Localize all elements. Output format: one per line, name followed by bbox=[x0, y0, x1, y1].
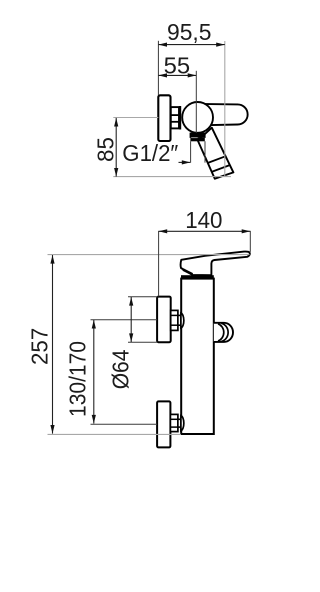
upper hex nut bbox=[171, 310, 178, 330]
svg-text:G1/2″: G1/2″ bbox=[122, 140, 178, 166]
mixer body bbox=[181, 279, 214, 434]
extension line: wall plane view1 bbox=[157, 41, 159, 95]
projection line: handle top bbox=[48, 254, 250, 256]
lower hex nut bbox=[170, 414, 178, 431]
upper wall flange (front view) bbox=[157, 297, 171, 343]
dimension line 257 bbox=[52, 255, 54, 434]
joint bar between nut and valve body bbox=[179, 106, 181, 130]
leader line G1/2 bbox=[179, 161, 191, 163]
upper joint bulge arc bbox=[181, 313, 184, 328]
thread ring divider highlight bbox=[191, 136, 198, 139]
upper nut middle collar bbox=[178, 315, 181, 325]
svg-text:55: 55 bbox=[164, 53, 191, 79]
svg-text:130/170: 130/170 bbox=[65, 341, 91, 417]
lower joint bulge arc bbox=[181, 416, 184, 431]
hose outlet inner arc 1 bbox=[221, 323, 228, 341]
lever handle capsule (side view) bbox=[200, 104, 248, 125]
svg-text:257: 257 bbox=[26, 328, 52, 365]
shower wand cross line 1 bbox=[208, 156, 226, 163]
svg-text:95,5: 95,5 bbox=[167, 19, 212, 45]
extension line: flange bottom (d64) bbox=[128, 341, 158, 343]
extension line: thread right bbox=[204, 141, 206, 162]
nut facet line top bbox=[171, 114, 179, 116]
projection line: shower end vertical bbox=[224, 41, 226, 177]
dimension line 140 bbox=[159, 230, 251, 232]
lower wall flange (front view) bbox=[157, 401, 170, 447]
nut facet line bottom bbox=[171, 121, 179, 123]
extension line: valve axis (55) bbox=[195, 71, 197, 133]
hose outlet inner arc 2 bbox=[218, 324, 224, 341]
projection line: valve center height bbox=[113, 117, 158, 119]
shower wand cross line 2 bbox=[212, 165, 230, 172]
upper nut facet line top bbox=[171, 314, 178, 316]
wall flange (side view) bbox=[158, 95, 170, 141]
extension line: handle tip bbox=[249, 231, 251, 252]
extension line: thread left bbox=[190, 141, 192, 162]
dimension line 130/170 bbox=[93, 320, 95, 424]
extension line: wall plane view2 bbox=[158, 231, 160, 296]
lower nut middle collar bbox=[178, 419, 181, 427]
dimension line 55 bbox=[158, 74, 196, 76]
projection line: body bottom bbox=[48, 433, 182, 435]
extension line: flange top (d64) bbox=[128, 296, 158, 298]
svg-text:140: 140 bbox=[185, 207, 222, 233]
projection line: shower end horizontal bbox=[113, 176, 231, 178]
upper nut facet line bottom bbox=[171, 324, 178, 326]
svg-text:Ø64: Ø64 bbox=[108, 349, 134, 389]
hex nut (side view) bbox=[171, 107, 179, 128]
lower nut facet line bottom bbox=[170, 426, 178, 428]
extension line: upper flange center bbox=[91, 319, 158, 321]
dimension line 85 bbox=[115, 118, 117, 177]
G1/2 thread ring upper band bbox=[190, 133, 206, 138]
valve body circle bbox=[182, 102, 213, 133]
lever wedge inner line bbox=[183, 270, 193, 275]
lever handle (front view) bbox=[181, 252, 250, 276]
shower wand body bbox=[198, 128, 234, 179]
hose outlet bbox=[214, 323, 233, 342]
svg-text:85: 85 bbox=[93, 137, 119, 162]
cartridge collar bbox=[181, 275, 214, 278]
extension line: lower flange center bbox=[91, 423, 158, 425]
dimension line 95,5 bbox=[158, 44, 224, 46]
dimension line d64 bbox=[130, 297, 132, 342]
lower nut facet line top bbox=[170, 418, 178, 420]
G1/2 thread ring lower band bbox=[190, 138, 204, 141]
